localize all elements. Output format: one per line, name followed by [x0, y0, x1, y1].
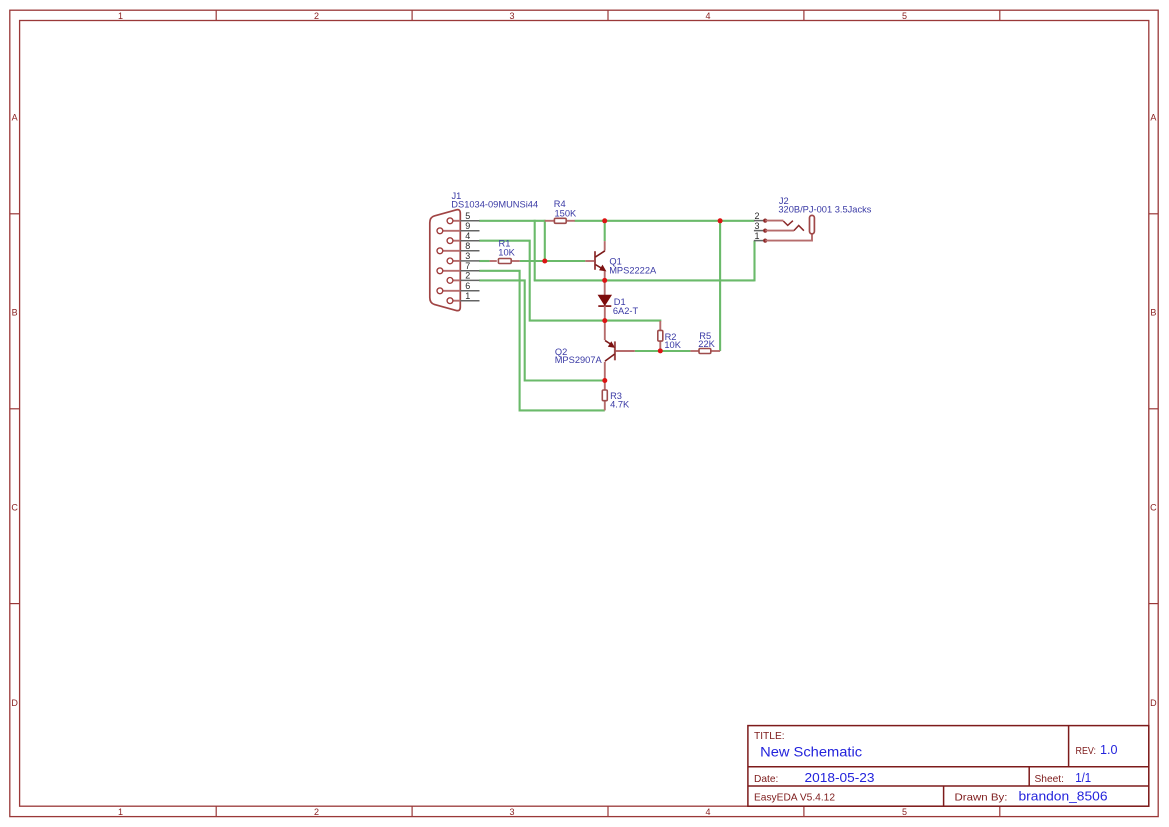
J2 pin 2 lead [765, 220, 783, 222]
J1 pin 2 circle [447, 278, 453, 284]
svg-text:2: 2 [314, 11, 319, 21]
wire pin3 stub [479, 260, 489, 262]
frame row ticks right [1149, 214, 1158, 604]
J1 pin 1 lead [453, 300, 461, 302]
transistor Q2 emitter diagonal [605, 341, 610, 344]
R4 reference label [554, 199, 566, 209]
junction D1 cathode row [602, 318, 607, 323]
J1 pin numbers [465, 211, 470, 301]
diode D1 cathode bar [598, 305, 611, 307]
R3 reference label [610, 391, 622, 401]
svg-text:1: 1 [465, 291, 470, 301]
R5 reference label [699, 331, 711, 341]
svg-text:DS1034-09MUNSi44: DS1034-09MUNSi44 [451, 199, 538, 209]
Q2 reference label [555, 347, 567, 357]
svg-text:8: 8 [465, 241, 470, 251]
svg-text:C: C [11, 503, 18, 513]
J1 reference label [452, 191, 462, 201]
svg-text:EasyEDA V5.4.12: EasyEDA V5.4.12 [754, 793, 835, 804]
J1 pin 4 line [460, 240, 479, 242]
svg-text:A: A [1150, 113, 1156, 123]
svg-text:5: 5 [465, 211, 470, 221]
J1 pin 5 lead [453, 220, 461, 222]
connector J2 pin 2 line [754, 220, 765, 222]
svg-text:2018-05-23: 2018-05-23 [805, 770, 875, 785]
frame column ticks top [216, 10, 1000, 20]
connector J2 pin 1 line [754, 240, 765, 242]
junction rail Q1 collector [602, 218, 607, 223]
connector J1 body [430, 210, 461, 311]
wire Q1 collector to rail [604, 220, 606, 241]
transistor Q1 collector lead [604, 241, 606, 251]
junction base row [542, 259, 547, 264]
wire base row [520, 260, 586, 262]
J2 pin 2 switch contact [783, 221, 793, 226]
transistor Q1 base bar [594, 251, 596, 270]
transistor Q2 emitter arrow [609, 342, 615, 347]
svg-text:1: 1 [118, 807, 123, 817]
connector J2 pin 3 line [754, 230, 765, 232]
J1 pin 1 line [460, 300, 479, 302]
J1 pin 3 line [460, 260, 479, 262]
svg-text:1/1: 1/1 [1075, 770, 1091, 785]
junction Q2 collector row [602, 378, 607, 383]
R2 value label [664, 340, 681, 350]
svg-text:brandon_8506: brandon_8506 [1019, 789, 1108, 804]
transistor Q1 emitter lead [604, 270, 606, 280]
J2 barrel [810, 215, 815, 233]
frame column ticks bottom [216, 806, 1000, 816]
svg-text:2: 2 [314, 807, 319, 817]
svg-text:Sheet:: Sheet: [1035, 774, 1064, 785]
title block border [748, 726, 1149, 807]
J1 value label [451, 199, 538, 209]
wire rail to R5 [719, 220, 721, 351]
D1 value label [613, 306, 639, 316]
J2 pin 1 lead [765, 234, 812, 241]
wire base Q2 to R5 [635, 350, 691, 352]
diode D1 anode lead [604, 280, 606, 295]
junction rail R5 [718, 218, 723, 223]
resistor R5 body [699, 349, 711, 354]
transistor Q2 collector diagonal [605, 354, 615, 361]
svg-text:6: 6 [465, 281, 470, 291]
transistor Q2 emitter lead [604, 321, 606, 341]
svg-text:22K: 22K [698, 339, 715, 349]
J1 pin 8 lead [443, 250, 461, 252]
frame row labels left [11, 113, 18, 708]
svg-text:4.7K: 4.7K [610, 400, 630, 410]
resistor R3 body [602, 390, 607, 401]
frame column labels bottom [118, 807, 907, 817]
wire top rail [575, 220, 755, 222]
svg-text:10K: 10K [498, 247, 515, 257]
J1 pin 9 circle [437, 228, 443, 234]
R1 value label [498, 247, 515, 257]
frame row ticks left [10, 214, 20, 604]
J2 reference label [779, 196, 789, 206]
wire R2 top row [604, 320, 661, 323]
J1 pin 6 line [460, 290, 479, 292]
J1 pin 7 circle [437, 268, 443, 274]
J1 pin 4 circle [447, 238, 453, 244]
svg-text:9: 9 [465, 221, 470, 231]
J1 pin 7 lead [443, 270, 461, 272]
transistor Q2 base bar [614, 341, 616, 360]
svg-text:C: C [1150, 503, 1157, 513]
diode D1 cathode lead [604, 306, 606, 321]
svg-text:A: A [12, 113, 18, 123]
J1 pin 4 lead [453, 240, 461, 242]
svg-text:1: 1 [755, 231, 760, 241]
J2 pin 3 dot [763, 229, 767, 233]
wire emitter row [534, 279, 755, 281]
transistor Q1 emitter diagonal [595, 265, 603, 270]
junction R2 bottom [658, 348, 663, 353]
svg-text:320B/PJ-001 3.5Jacks: 320B/PJ-001 3.5Jacks [778, 205, 871, 215]
svg-text:D: D [11, 698, 18, 708]
R5 value label [698, 339, 715, 349]
wire to J2 pin1 [753, 241, 755, 282]
transistor Q2 base lead [615, 350, 635, 352]
svg-text:REV:: REV: [1076, 746, 1097, 757]
resistor R2 leads [659, 321, 661, 351]
R4 value label [555, 208, 578, 218]
R3 value label [610, 400, 630, 410]
svg-text:MPS2222A: MPS2222A [609, 266, 657, 276]
J1 pin 9 lead [443, 230, 461, 232]
J1 pin 5 line [460, 220, 479, 222]
svg-text:4: 4 [705, 11, 710, 21]
J1 pin 2 line [460, 279, 479, 281]
Q2 value label [555, 355, 603, 365]
svg-text:New Schematic: New Schematic [760, 744, 862, 760]
svg-text:MPS2907A: MPS2907A [555, 355, 603, 365]
svg-text:4: 4 [465, 231, 470, 241]
J1 pin 3 lead [453, 260, 461, 262]
svg-text:5: 5 [902, 807, 907, 817]
J2 pin 3 switch contact [794, 226, 804, 231]
svg-text:3: 3 [509, 11, 514, 21]
J2 pin 1 dot [763, 239, 767, 243]
R1 reference label [499, 239, 511, 249]
J2 value label [778, 205, 871, 215]
svg-text:B: B [12, 308, 18, 318]
wire pin5 vertical [534, 220, 536, 281]
svg-text:2: 2 [465, 271, 470, 281]
svg-text:1: 1 [118, 11, 123, 21]
J1 pin 2 lead [453, 279, 461, 281]
wire R4 left to base junction [544, 220, 546, 261]
frame row labels right [1150, 113, 1157, 708]
J2 pin 3 lead [765, 230, 794, 232]
wire pin5 row [479, 220, 545, 222]
resistor R5 leads [690, 350, 720, 352]
svg-text:TITLE:: TITLE: [754, 731, 785, 742]
svg-text:3: 3 [509, 807, 514, 817]
junction emitter row [602, 278, 607, 283]
wire pin7 row [479, 271, 605, 411]
R2 reference label [665, 332, 677, 342]
frame column labels top [118, 11, 907, 21]
svg-text:150K: 150K [555, 208, 578, 218]
resistor R4 body [554, 218, 566, 223]
svg-text:2: 2 [755, 211, 760, 221]
svg-text:Date:: Date: [754, 774, 778, 785]
Q1 value label [609, 266, 657, 276]
J1 pin 1 circle [447, 298, 453, 304]
J1 pin 6 lead [443, 290, 461, 292]
transistor Q1 collector diagonal [595, 251, 605, 257]
resistor R3 leads [604, 381, 606, 411]
J1 pin 9 line [460, 230, 479, 232]
wire pin2 row [479, 280, 605, 380]
J2 pin 2 dot [763, 219, 767, 223]
J1 pin 7 line [460, 270, 479, 272]
J1 pin 8 circle [437, 248, 443, 254]
J1 pin 6 circle [437, 288, 443, 294]
transistor Q1 base lead [585, 260, 595, 262]
D1 reference label [614, 297, 626, 307]
svg-text:D: D [1150, 698, 1157, 708]
resistor R1 leads [490, 260, 520, 262]
svg-text:3: 3 [755, 221, 760, 231]
J1 pin 3 circle [447, 258, 453, 264]
J2 pin numbers [755, 211, 760, 241]
resistor R2 body [658, 330, 663, 341]
svg-text:6A2-T: 6A2-T [613, 306, 639, 316]
svg-text:7: 7 [465, 261, 470, 271]
svg-text:B: B [1150, 308, 1156, 318]
svg-text:Drawn By:: Drawn By: [955, 792, 1008, 804]
transistor Q1 emitter arrow [600, 265, 606, 271]
Q1 reference label [609, 256, 621, 266]
J1 pin 8 line [460, 250, 479, 252]
svg-text:5: 5 [902, 11, 907, 21]
transistor Q2 collector lead [604, 362, 606, 381]
svg-text:4: 4 [705, 807, 710, 817]
resistor R4 leads [545, 220, 575, 222]
J1 pin 5 circle [447, 218, 453, 224]
svg-text:1.0: 1.0 [1100, 742, 1118, 757]
wire pin4 row [479, 241, 605, 321]
diode D1 triangle [598, 295, 611, 305]
resistor R1 body [498, 259, 511, 264]
svg-text:3: 3 [465, 251, 470, 261]
svg-text:10K: 10K [664, 340, 681, 350]
